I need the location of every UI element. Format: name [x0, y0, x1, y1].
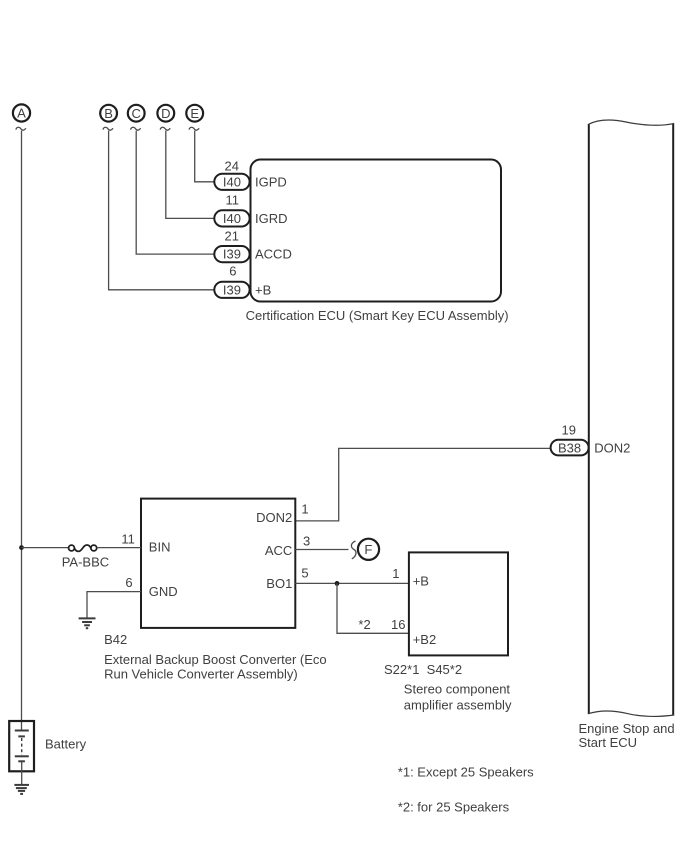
svg-text:C: C: [132, 106, 141, 121]
wire break squiggle below C: [131, 127, 141, 130]
noise filter PA-BBC: [69, 545, 97, 551]
svg-text:Run Vehicle Converter Assembly: Run Vehicle Converter Assembly): [104, 667, 298, 682]
svg-text:GND: GND: [149, 584, 178, 599]
wire break squiggle below D: [160, 127, 170, 130]
svg-text:B38: B38: [558, 440, 581, 455]
node E: [186, 105, 203, 122]
svg-text:19: 19: [562, 423, 576, 438]
svg-text:Certification ECU (Smart Key E: Certification ECU (Smart Key ECU Assembl…: [246, 308, 509, 323]
node F: [358, 539, 379, 560]
svg-text:I39: I39: [223, 282, 241, 297]
svg-text:+B2: +B2: [413, 632, 437, 647]
wire BO1 to stereo amp: [295, 582, 409, 584]
node D: [157, 105, 174, 122]
connector I40 pin 24: [214, 158, 249, 190]
node A: [13, 104, 30, 121]
svg-text:*2: *2: [358, 617, 370, 632]
svg-text:B: B: [104, 106, 113, 121]
svg-text:E: E: [190, 106, 199, 121]
wire from A down to battery: [21, 131, 23, 731]
svg-text:11: 11: [226, 193, 240, 208]
svg-text:6: 6: [229, 264, 236, 279]
B42 box (External Backup Boost Converter): [141, 499, 295, 628]
svg-text:amplifier assembly: amplifier assembly: [404, 698, 512, 713]
svg-text:+B: +B: [255, 282, 271, 297]
junction dot on BO1 wire: [335, 581, 340, 586]
svg-text:11: 11: [121, 532, 135, 547]
svg-text:1: 1: [392, 566, 399, 581]
svg-text:I40: I40: [223, 211, 241, 226]
svg-text:Stereo component: Stereo component: [404, 682, 511, 697]
svg-text:IGPD: IGPD: [255, 174, 287, 189]
svg-text:*2: for 25 Speakers: *2: for 25 Speakers: [398, 799, 510, 814]
node C: [128, 105, 145, 122]
svg-text:ACC: ACC: [265, 543, 292, 558]
svg-text:DON2: DON2: [594, 440, 630, 455]
ground (B42 GND): [79, 618, 96, 628]
wire filter to BIN: [97, 547, 141, 549]
svg-text:*1: Except 25 Speakers: *1: Except 25 Speakers: [398, 764, 534, 779]
wire B to +B connector: [109, 131, 215, 290]
wire E to IGPD connector: [195, 131, 215, 182]
svg-text:Start ECU: Start ECU: [579, 735, 638, 750]
wire break squiggle below E: [189, 127, 199, 130]
Engine Stop and Start ECU body: [588, 120, 674, 716]
svg-text:I39: I39: [223, 247, 241, 262]
svg-text:Battery: Battery: [45, 737, 87, 752]
connector B38 pin 19: [551, 423, 589, 456]
svg-text:BIN: BIN: [149, 539, 171, 554]
connector I40 pin 11: [214, 193, 249, 227]
svg-text:S22*1 S45*2: S22*1 S45*2: [384, 662, 462, 677]
svg-text:F: F: [364, 542, 372, 557]
Certification ECU box: [251, 160, 502, 302]
node B: [100, 105, 117, 122]
svg-text:3: 3: [303, 534, 310, 549]
connector I39 pin 6: [214, 264, 249, 298]
wire break squiggle below B: [103, 127, 113, 130]
junction dot at A / PA-BBC tap: [19, 545, 24, 550]
svg-text:+B: +B: [413, 574, 429, 589]
battery box: [9, 721, 34, 771]
svg-text:D: D: [161, 106, 170, 121]
svg-text:External Backup Boost Converte: External Backup Boost Converter (Eco: [104, 652, 327, 667]
wire battery to ground: [21, 762, 23, 785]
svg-text:6: 6: [125, 575, 132, 590]
svg-text:24: 24: [225, 158, 239, 173]
svg-text:5: 5: [301, 566, 308, 581]
battery dashed link: [21, 738, 23, 755]
ground (battery): [14, 785, 29, 794]
svg-text:I40: I40: [223, 174, 241, 189]
connector I39 pin 21: [214, 228, 249, 262]
wire C to ACCD connector: [136, 131, 214, 254]
svg-text:21: 21: [225, 228, 239, 243]
wire junction to +B2: [337, 583, 409, 633]
wire D to IGRD connector: [166, 131, 215, 219]
svg-text:PA-BBC: PA-BBC: [62, 555, 109, 570]
svg-text:DON2: DON2: [256, 510, 292, 525]
svg-text:ACCD: ACCD: [255, 247, 292, 262]
Stereo component amplifier box: [409, 552, 508, 655]
svg-text:Engine Stop and: Engine Stop and: [579, 721, 675, 736]
svg-text:1: 1: [301, 502, 308, 517]
wire break squiggle below A: [16, 127, 26, 130]
svg-text:B42: B42: [104, 632, 127, 647]
svg-text:BO1: BO1: [266, 576, 292, 591]
wire BIN from A tap: [22, 547, 69, 549]
wire GND to ground: [87, 592, 141, 618]
battery cell plates: [15, 731, 29, 762]
svg-text:A: A: [17, 106, 26, 121]
wire DON2 from B42 to B38: [295, 448, 550, 521]
svg-text:16: 16: [391, 617, 405, 632]
wire ACC to F: [295, 549, 348, 551]
svg-text:IGRD: IGRD: [255, 211, 288, 226]
wire break squiggle at F: [351, 541, 356, 559]
